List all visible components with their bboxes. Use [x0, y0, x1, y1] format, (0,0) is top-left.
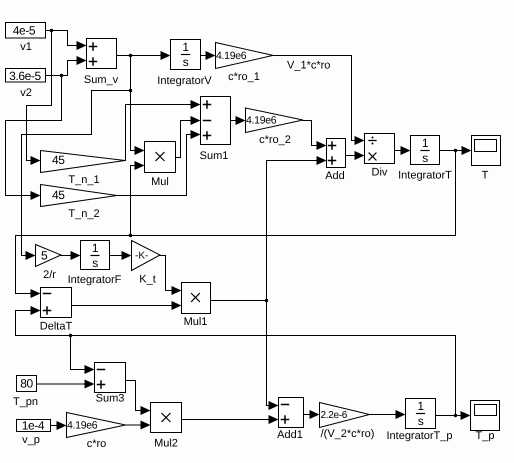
svg-text:Sum_v: Sum_v: [84, 74, 119, 86]
wire v1 branch to T_n_1: [27, 31, 52, 161]
svg-text:V_1*c*ro: V_1*c*ro: [287, 60, 330, 72]
gain T_n_2: [41, 185, 118, 221]
svg-text:4.19e6: 4.19e6: [246, 115, 277, 127]
arrow into Sum3 port1: [85, 365, 95, 374]
svg-text:4.19e6: 4.19e6: [67, 420, 98, 432]
gain c*ro_2: [246, 108, 304, 146]
svg-text:45: 45: [52, 188, 65, 202]
wire DeltaT to Mul1: [72, 305, 172, 307]
gain 2/r: [36, 245, 62, 282]
svg-text:Add1: Add1: [277, 429, 303, 441]
svg-text:T_n_1: T_n_1: [68, 174, 99, 186]
constant v_p: [17, 419, 51, 447]
arrow into IntegratorT_p: [396, 410, 406, 419]
wire Add to Div: [346, 155, 355, 157]
arrow into T_n_1: [31, 156, 41, 165]
arrow into c*ro_1: [206, 51, 216, 60]
scope T_p: [471, 401, 500, 443]
gain c*ro_1: [216, 43, 274, 84]
wire v2 branch to T_n_2: [6, 76, 62, 196]
arrow into c*ro_2: [236, 116, 246, 125]
wire T feedback from IntegratorT: [16, 151, 456, 294]
node Mul1 out: [265, 299, 268, 302]
gain c*ro: [67, 413, 126, 451]
arrow into Add port1: [317, 141, 327, 150]
wire IntegratorV to c*ro_1: [201, 55, 206, 57]
node T_p line: [69, 334, 72, 337]
arrow into 2.2e-6: [310, 410, 320, 419]
sum Add1: [277, 398, 303, 442]
arrow into Mul1 port1: [172, 286, 182, 295]
arrow into scope T_p: [461, 411, 471, 420]
arrow into Mul port1: [135, 146, 145, 155]
svg-text:Sum1: Sum1: [200, 150, 229, 162]
wire Sum1 to c*ro_2: [231, 120, 236, 122]
wire v2 to Sum_v: [47, 61, 77, 76]
wire c*ro_1 to Div, node V_1*c*ro: [273, 56, 355, 141]
arrow into Sum1 port1: [191, 100, 201, 109]
node v2 branch: [60, 74, 63, 77]
arrow into Div port1: [355, 136, 365, 145]
arrow into IntegratorF: [71, 251, 81, 260]
arrow into IntegratorV: [161, 51, 171, 60]
svg-text:5: 5: [41, 249, 48, 263]
svg-text:3.6e-5: 3.6e-5: [9, 69, 41, 83]
svg-text:c*ro: c*ro: [87, 438, 107, 450]
constant v2: [6, 69, 46, 100]
svg-text:80: 80: [20, 377, 33, 391]
arrow into IntegratorT: [401, 146, 411, 155]
svg-text:Div: Div: [372, 167, 388, 179]
wire Mul1 branch up to Add: [267, 161, 317, 301]
arrow into 2/r: [26, 251, 36, 260]
arrow into K_t: [122, 251, 132, 260]
wire IntegratorT to scope T: [440, 150, 462, 152]
gain K_t: [132, 241, 161, 286]
svg-text:4e-5: 4e-5: [13, 24, 36, 38]
integrator IntegratorT: [398, 136, 452, 182]
svg-text:1: 1: [182, 40, 189, 54]
svg-text:IntegratorT: IntegratorT: [398, 170, 452, 182]
svg-text:/(V_2*c*ro): /(V_2*c*ro): [321, 428, 375, 440]
arrow into Div port2: [355, 151, 365, 160]
wire Div to IntegratorT: [395, 150, 401, 152]
integrator IntegratorF: [68, 241, 122, 287]
svg-text:c*ro_2: c*ro_2: [259, 134, 291, 146]
wire v1 to Sum_v: [47, 31, 77, 46]
ARROWHEADS: [26, 41, 472, 430]
wire Mul1 to junction: [211, 300, 267, 302]
arrow into Sum3 port2: [85, 380, 95, 389]
svg-text:s: s: [92, 256, 98, 270]
sum Sum3: [95, 363, 126, 405]
gain T_n_1: [41, 151, 126, 187]
node Sum_v at y90: [129, 89, 132, 92]
svg-text:2/r: 2/r: [43, 269, 56, 281]
svg-text:Add: Add: [325, 170, 345, 182]
wire Mul to Sum1: [176, 121, 191, 158]
svg-text:s: s: [418, 414, 424, 428]
svg-text:DeltaT: DeltaT: [40, 321, 73, 333]
wire T_n_2 to Sum1: [118, 135, 191, 196]
node T out: [454, 149, 457, 152]
arrow into Add1 port1: [269, 401, 279, 410]
arrow into T_n_2: [31, 191, 41, 200]
svg-text:2.2e-6: 2.2e-6: [321, 410, 348, 421]
svg-text:Mul: Mul: [151, 176, 169, 188]
scope T: [472, 136, 501, 182]
svg-text:v_p: v_p: [22, 434, 40, 446]
multiply Mul1: [182, 283, 211, 329]
wire Sum_v to IntegratorV: [117, 55, 161, 57]
svg-text:IntegratorV: IntegratorV: [157, 75, 212, 87]
wire 2.2e-6 to IntegratorT_p: [370, 414, 396, 416]
arrow into Sum_v port1: [77, 41, 87, 50]
multiply Mul: [145, 142, 176, 189]
arrow into Add1 port2: [269, 415, 279, 424]
arrow into scope T: [462, 146, 472, 155]
svg-text:-K-: -K-: [135, 251, 148, 262]
arrow into DeltaT port1: [31, 289, 41, 298]
wire K_t to Mul1: [160, 256, 172, 291]
svg-text:v1: v1: [20, 41, 32, 53]
arrow into c*ro: [57, 421, 67, 430]
wire Mul2 to Add1: [182, 419, 269, 421]
wire Mul1 branch down to Add1: [267, 301, 269, 406]
arrow into Sum1 port2: [191, 116, 201, 125]
arrow into Mul1 port2: [172, 301, 182, 310]
wire v_p to c*ro: [51, 425, 57, 427]
svg-text:1: 1: [422, 136, 429, 150]
node T_p out: [454, 414, 457, 417]
integrator IntegratorT_p: [386, 399, 452, 443]
wire T branch to Mul: [131, 166, 135, 236]
svg-text:c*ro_1: c*ro_1: [228, 71, 260, 83]
svg-text:s: s: [422, 151, 428, 165]
sum DeltaT: [40, 288, 73, 333]
divide Div: [365, 134, 395, 179]
svg-text:Mul1: Mul1: [184, 316, 208, 328]
svg-text:Sum3: Sum3: [96, 393, 125, 405]
sum Sum_v: [84, 39, 119, 87]
arrow into Sum1 port3: [191, 130, 201, 139]
wire T_pn to Sum3: [37, 383, 85, 385]
svg-text:T_pn: T_pn: [13, 396, 38, 408]
constant T_pn: [13, 376, 38, 409]
svg-text:1e-4: 1e-4: [22, 419, 45, 433]
wire c*ro_2 to Add: [303, 121, 317, 146]
svg-text:K_t: K_t: [139, 274, 156, 286]
wire IntegratorF to K_t: [110, 255, 122, 257]
svg-text:Mul2: Mul2: [154, 438, 178, 450]
wire T_p feedback: [16, 311, 456, 416]
arrow into DeltaT port2: [31, 306, 41, 315]
gain 2.2e-6: [320, 403, 375, 441]
wire Sum_v branch down to Mul: [131, 56, 135, 151]
node Sum_v out: [129, 54, 132, 57]
arrow into Add port2: [317, 156, 327, 165]
arrow into Mul port2: [135, 161, 145, 170]
wire c*ro to Mul2: [126, 424, 141, 426]
multiply Mul2: [151, 403, 182, 450]
svg-text:1: 1: [92, 241, 99, 255]
arrow into Mul2 port2: [141, 421, 151, 430]
wire Sum_v branch to 2/r: [22, 91, 131, 256]
svg-text:v2: v2: [20, 87, 32, 99]
wire Add1 to 2.2e-6: [305, 414, 310, 416]
svg-text:IntegratorT_p: IntegratorT_p: [386, 430, 452, 442]
integrator IntegratorV: [157, 40, 212, 88]
sum Sum1: [200, 97, 231, 163]
constant v1: [6, 23, 46, 54]
wire 2/r to IntegratorF: [61, 255, 71, 257]
svg-text:s: s: [183, 55, 189, 69]
svg-text:T_p: T_p: [476, 430, 495, 442]
arrow into Sum_v port2: [77, 56, 87, 65]
svg-text:T_n_2: T_n_2: [68, 208, 99, 220]
node T line at x130: [129, 234, 132, 237]
svg-text:4.19e6: 4.19e6: [216, 50, 247, 62]
wire Sum3 to Mul2: [126, 381, 141, 411]
sum Add: [325, 139, 345, 183]
svg-text:1: 1: [417, 399, 424, 413]
svg-text:T: T: [482, 170, 489, 182]
wire IntegratorT_p to scope T_p: [436, 415, 461, 417]
svg-text:IntegratorF: IntegratorF: [68, 274, 122, 286]
svg-text:45: 45: [52, 153, 65, 167]
arrow into Mul2 port1: [141, 406, 151, 415]
wire T_p branch to Sum3: [71, 336, 85, 370]
wire T_n_1 to Sum1: [126, 105, 191, 161]
node v1 branch: [50, 29, 53, 32]
